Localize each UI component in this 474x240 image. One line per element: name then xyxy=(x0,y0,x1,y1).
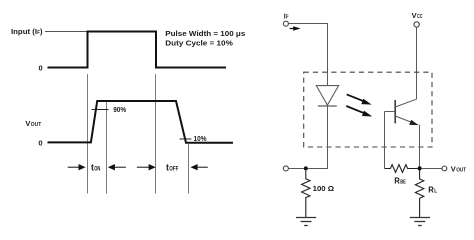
wire IF terminal to LED anode xyxy=(289,24,328,86)
svg-text:BE: BE xyxy=(400,179,406,185)
svg-text:OUT: OUT xyxy=(456,167,467,173)
guide line G3 (input falling edge) xyxy=(155,74,157,194)
guide line G4 (10% point) xyxy=(188,144,190,194)
input pulse waveform xyxy=(48,32,227,68)
svg-text:OUT: OUT xyxy=(31,122,42,128)
svg-text:V: V xyxy=(451,164,456,173)
leader wire from label to pulse top xyxy=(45,31,88,33)
terminal IF xyxy=(283,21,288,26)
10% tick xyxy=(180,138,192,140)
terminal VOUT xyxy=(442,166,447,171)
svg-text:0: 0 xyxy=(39,63,43,72)
wire node to VOUT terminal xyxy=(422,168,442,170)
ground (left) xyxy=(296,218,316,226)
guide line G2 (90% point) xyxy=(106,102,108,194)
tOFF left arrow (pointing right) xyxy=(137,164,156,170)
label tOFF xyxy=(166,163,179,174)
wire base down to RBE xyxy=(384,112,386,169)
current flow arrow xyxy=(290,26,301,31)
label IF (circuit input) xyxy=(284,12,289,21)
svg-text:ON: ON xyxy=(94,166,100,173)
svg-text:R: R xyxy=(428,185,434,194)
tON right arrow (pointing left) xyxy=(108,164,126,170)
svg-text:90%: 90% xyxy=(113,105,126,114)
LED D1 xyxy=(316,86,338,106)
svg-text:CC: CC xyxy=(417,14,423,20)
label RBE xyxy=(394,176,406,185)
90% tick xyxy=(92,109,109,111)
svg-text:Pulse Width = 100 μs: Pulse Width = 100 μs xyxy=(165,29,245,38)
svg-text:OFF: OFF xyxy=(169,166,178,173)
junction node (100 ohm tap) xyxy=(304,166,308,170)
svg-text:V: V xyxy=(25,119,30,128)
ground (right) xyxy=(410,218,430,226)
guide line G1 (input rising edge) xyxy=(87,74,89,194)
label VOUT xyxy=(25,119,42,128)
resistor RL xyxy=(415,171,423,218)
light emission arrows xyxy=(346,94,372,116)
tOFF right arrow (pointing left) xyxy=(191,164,208,170)
phototransistor Q1 xyxy=(385,99,419,125)
junction node (output) xyxy=(418,166,422,170)
svg-text:F: F xyxy=(286,15,289,21)
resistor RBE xyxy=(385,165,418,173)
label tON xyxy=(91,163,101,174)
wire LED cathode down to input return node xyxy=(288,106,327,169)
label RL xyxy=(428,185,437,194)
resistor 100 ohm xyxy=(302,170,310,217)
tON left arrow (pointing right) xyxy=(68,164,86,170)
svg-text:Input (I: Input (I xyxy=(11,27,37,36)
label Input (IF) xyxy=(11,27,43,36)
svg-text:100 Ω: 100 Ω xyxy=(313,184,335,193)
dashed package outline xyxy=(304,72,432,147)
wire emitter down to output node xyxy=(419,125,421,169)
svg-text:0: 0 xyxy=(38,138,42,147)
label VCC xyxy=(412,11,423,20)
svg-text:V: V xyxy=(412,11,417,20)
terminal VCC xyxy=(414,22,419,27)
svg-text:R: R xyxy=(394,176,400,185)
svg-text:10%: 10% xyxy=(194,134,207,143)
terminal input return xyxy=(283,166,288,171)
label VOUT (circuit output) xyxy=(451,164,467,173)
svg-text:Duty Cycle = 10%: Duty Cycle = 10% xyxy=(165,39,233,48)
wire VCC to collector xyxy=(416,27,418,99)
output waveform xyxy=(48,101,234,143)
annotation pulse width / duty cycle xyxy=(165,29,245,48)
